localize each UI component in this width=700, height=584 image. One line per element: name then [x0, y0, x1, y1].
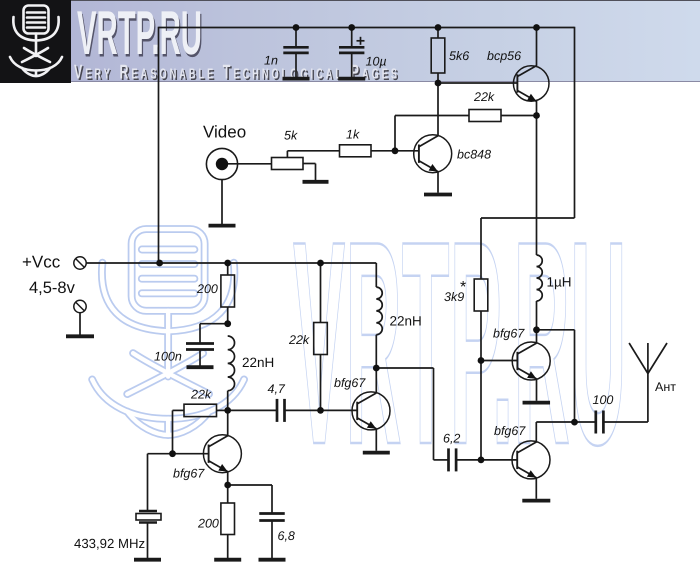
svg-text:22k: 22k — [473, 90, 495, 104]
svg-text:4,5-8v: 4,5-8v — [29, 279, 76, 297]
svg-text:bc848: bc848 — [457, 148, 491, 162]
svg-text:22nH: 22nH — [242, 355, 274, 370]
svg-text:bfg67: bfg67 — [334, 376, 366, 390]
svg-text:bcp56: bcp56 — [487, 49, 521, 63]
svg-text:*: * — [460, 279, 466, 296]
svg-text:bfg67: bfg67 — [494, 424, 526, 438]
svg-text:5k: 5k — [284, 129, 298, 143]
svg-text:1n: 1n — [264, 54, 278, 68]
svg-text:100: 100 — [593, 393, 614, 407]
svg-text:VRTP.RU: VRTP.RU — [77, 0, 202, 68]
svg-text:1µH: 1µH — [547, 275, 572, 290]
svg-text:bfg67: bfg67 — [493, 327, 525, 341]
svg-text:1k: 1k — [346, 128, 360, 142]
svg-text:4,7: 4,7 — [268, 382, 286, 396]
svg-text:10µ: 10µ — [366, 55, 387, 69]
svg-text:100n: 100n — [154, 350, 182, 364]
svg-text:22nH: 22nH — [390, 314, 422, 329]
svg-text:22k: 22k — [288, 333, 310, 347]
svg-text:433,92 MHz: 433,92 MHz — [74, 536, 145, 551]
svg-text:22k: 22k — [190, 388, 212, 402]
svg-text:6,8: 6,8 — [278, 529, 295, 543]
svg-text:Ант: Ант — [655, 380, 676, 394]
svg-text:5k6: 5k6 — [449, 49, 469, 63]
svg-text:bfg67: bfg67 — [173, 467, 205, 481]
svg-text:200: 200 — [196, 282, 218, 296]
svg-text:+Vcc: +Vcc — [22, 253, 61, 272]
svg-text:Video: Video — [203, 123, 246, 142]
svg-text:200: 200 — [197, 517, 219, 531]
svg-text:VRTP.RU: VRTP.RU — [293, 181, 627, 505]
svg-text:6,2: 6,2 — [443, 432, 460, 446]
